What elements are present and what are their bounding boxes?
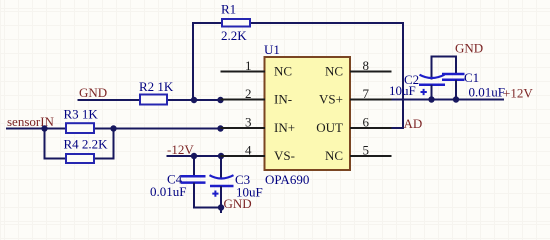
svg-text:GND: GND [79,85,107,100]
svg-text:IN+: IN+ [274,120,295,135]
capacitor C2 polarized [419,75,445,95]
wire C1 top lead [455,56,457,75]
capacitor C1 [442,74,465,80]
wire feedback top horizontal [192,22,404,24]
svg-text:IN-: IN- [274,92,292,107]
pin 8 stub [350,71,392,73]
svg-text:R1: R1 [221,2,236,17]
pin 3 stub [221,127,266,129]
node junction pin3 [217,125,223,131]
wire cap top bar [432,56,457,58]
capacitor C3 polarized [210,175,234,197]
svg-text:VS+: VS+ [319,92,343,107]
svg-text:5: 5 [363,143,370,158]
node junction C4 [191,153,197,159]
pin 4 stub [221,155,266,157]
svg-text:3: 3 [245,115,252,130]
svg-text:NC: NC [274,64,292,79]
node junction pin2 [217,97,223,103]
svg-text:8: 8 [363,58,370,73]
wire C4 bottom lead [194,183,221,208]
wire feedback vertical left [192,23,194,100]
wire pin6 OUT to vertical [392,127,405,129]
wire C1 bottom lead [455,80,457,100]
node junction C2 rail [428,96,434,102]
svg-text:OUT: OUT [316,120,343,135]
svg-text:0.01uF: 0.01uF [150,184,186,199]
wire C4 top lead [193,156,195,176]
svg-text:2.2K: 2.2K [221,28,247,43]
svg-text:1: 1 [245,58,252,73]
svg-text:-12V: -12V [167,142,194,157]
svg-text:AD: AD [404,116,423,131]
wire C2 bottom lead [431,85,433,100]
node junction GND bottom [218,204,224,210]
svg-text:U1: U1 [264,42,280,57]
wire +12V rail [392,99,505,101]
svg-text:+12V: +12V [503,86,533,101]
node junction C1 rail [453,96,459,102]
svg-text:R2 1K: R2 1K [139,79,174,94]
pin 6 stub [350,127,392,129]
svg-text:OPA690: OPA690 [265,172,309,187]
wire C3 top lead [220,156,222,180]
node junction C3 [218,153,224,159]
svg-text:sensorIN: sensorIN [7,114,55,129]
svg-text:6: 6 [363,115,370,130]
wire R4 branch [45,129,114,159]
svg-text:2: 2 [245,86,252,101]
svg-text:R3 1K: R3 1K [64,107,99,122]
wire GND to IN- row [78,99,222,101]
node junction R4 rejoin [110,125,116,131]
wire sensorIN row [6,128,221,130]
svg-text:10uF: 10uF [389,83,416,98]
node junction R1/R2 [191,97,197,103]
pin 1 stub [221,71,266,73]
svg-text:0.01uF: 0.01uF [469,85,505,100]
wire C2 top lead [431,56,433,80]
resistor R1 [222,19,250,27]
op-amp U1 OPA690 body [265,57,351,170]
svg-text:VS-: VS- [274,148,295,163]
pin 7 stub [350,99,392,101]
svg-text:GND: GND [455,41,483,56]
pin 5 stub [350,155,392,157]
node junction sensorIN branch [41,125,47,131]
resistor R4 [66,154,94,163]
resistor R3 [66,123,94,133]
svg-text:NC: NC [325,148,343,163]
svg-text:7: 7 [363,86,370,101]
svg-text:NC: NC [325,64,343,79]
wire -12V rail [167,155,222,157]
wire C3 bottom lead [220,186,222,213]
capacitor C4 [181,176,206,182]
wire feedback vertical right [402,22,404,128]
svg-text:GND: GND [224,196,252,211]
svg-text:4: 4 [245,143,252,158]
pin 2 stub [221,99,266,101]
resistor R2 [140,95,167,105]
svg-text:C1: C1 [464,70,479,85]
svg-text:R4 2.2K: R4 2.2K [64,137,109,152]
